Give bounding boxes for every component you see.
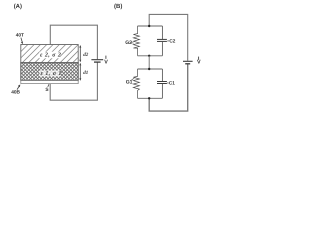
svg-text:V: V (104, 60, 108, 66)
svg-text:40B: 40B (11, 89, 20, 95)
svg-text:40T: 40T (16, 32, 24, 38)
svg-text:(A): (A) (14, 3, 22, 10)
svg-text:C2: C2 (169, 38, 175, 43)
svg-text:G1: G1 (126, 80, 133, 86)
svg-text:V: V (197, 60, 201, 66)
svg-text:(B): (B) (114, 3, 122, 10)
svg-text:d2: d2 (83, 52, 89, 58)
svg-text:d1: d1 (83, 70, 88, 76)
svg-text:C1: C1 (169, 80, 175, 85)
svg-text:ε 2, σ 2: ε 2, σ 2 (40, 53, 61, 59)
svg-text:ε 1, σ 1: ε 1, σ 1 (41, 71, 62, 77)
